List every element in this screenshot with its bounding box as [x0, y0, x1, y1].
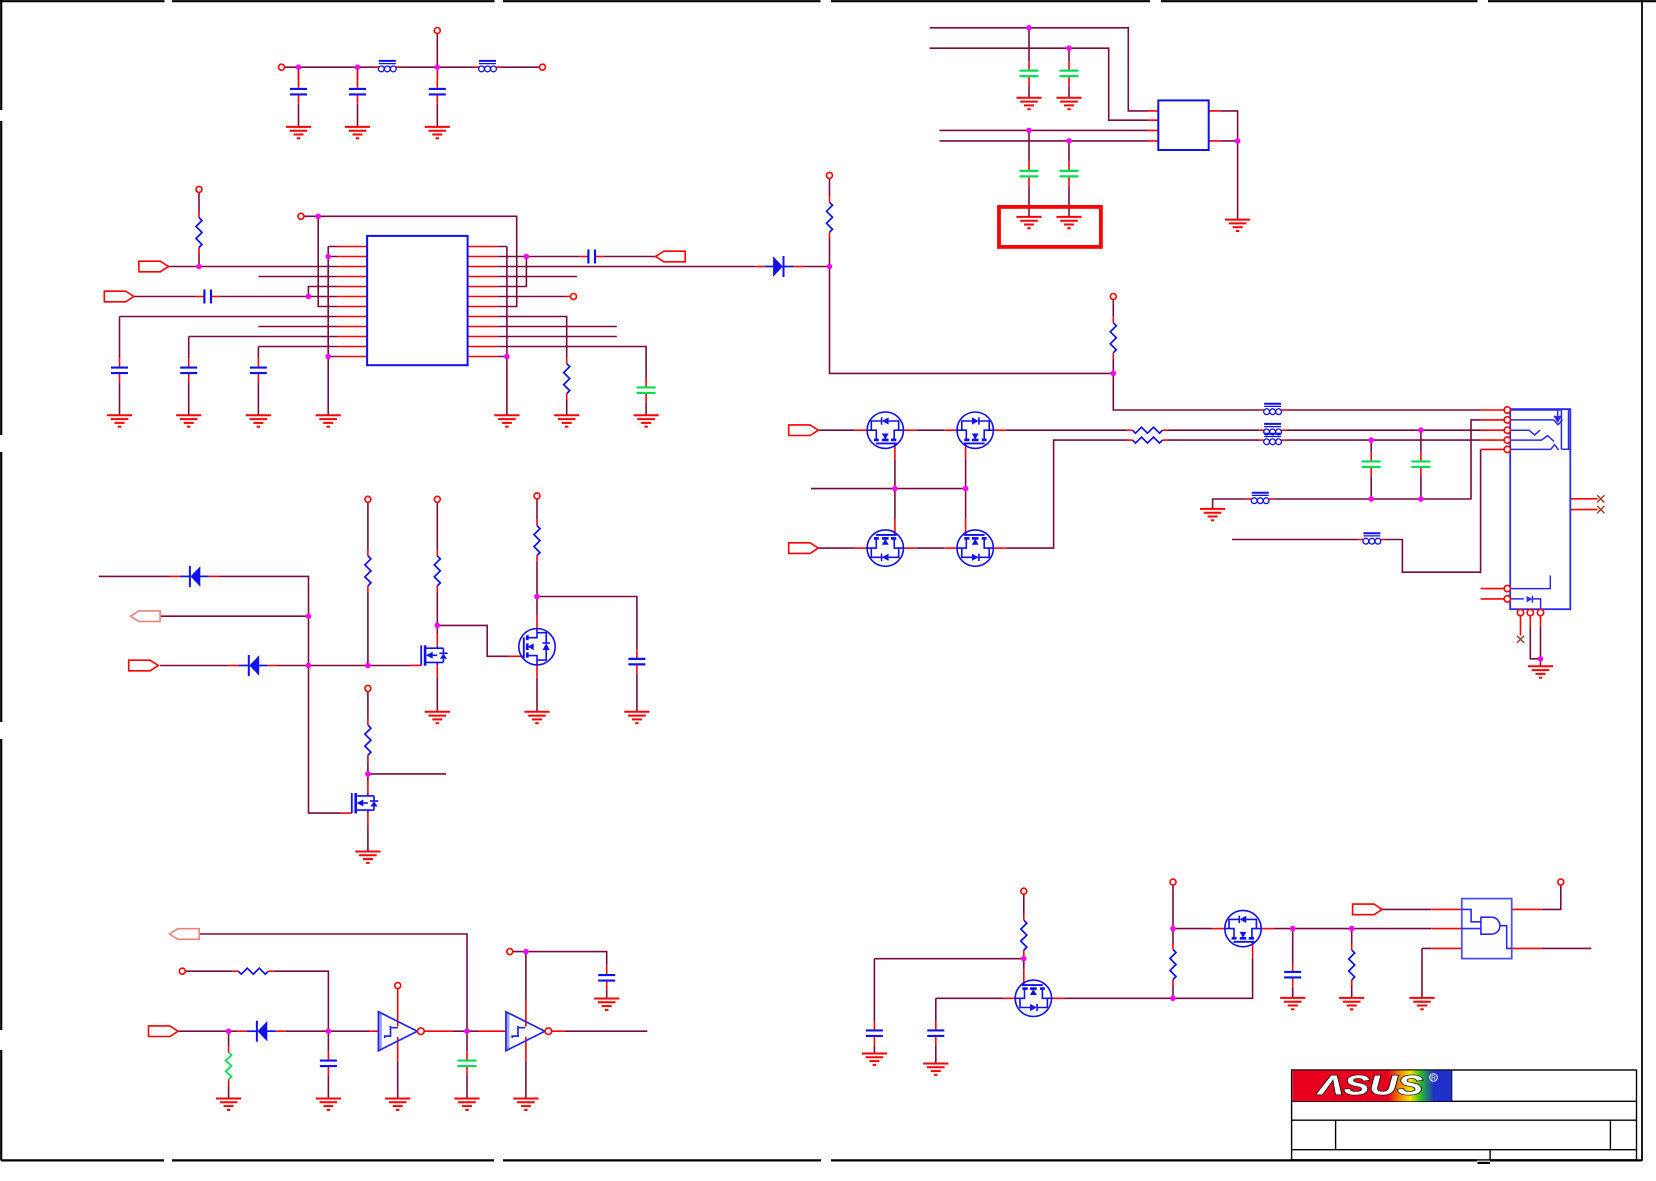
- svg-text:ΛSUS: ΛSUS: [1315, 1070, 1424, 1101]
- svg-text:R: R: [1431, 1075, 1436, 1082]
